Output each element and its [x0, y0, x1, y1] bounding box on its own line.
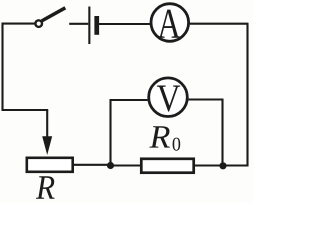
- wire voltmeter branch left horizontal: [110, 99, 148, 101]
- label R0 : R: [149, 126, 169, 147]
- ammeter A circle: [151, 4, 189, 42]
- rheostat slider arrowhead: [42, 136, 52, 155]
- wire battery to ammeter: [99, 23, 151, 25]
- wire ammeter to top-right corner: [189, 23, 248, 25]
- rheostat R body: [27, 158, 73, 172]
- label R: [36, 176, 55, 198]
- wire voltmeter branch left vertical: [109, 99, 111, 166]
- wire rheostat slider vertical: [46, 110, 48, 139]
- resistor R0 body: [141, 159, 193, 173]
- wire switch to battery: [69, 23, 88, 25]
- wire left vertical: [1, 23, 3, 111]
- junction right: [219, 162, 226, 169]
- wire mid-left horizontal: [3, 109, 49, 111]
- ammeter A label: [158, 10, 181, 38]
- wire voltmeter branch right vertical: [221, 100, 223, 166]
- battery short plate (-): [94, 16, 99, 35]
- wire bottom-right corner to right junction: [223, 164, 249, 166]
- battery long plate (+): [88, 7, 90, 45]
- voltmeter V label: [157, 86, 180, 112]
- wire right junction to R0: [195, 164, 223, 166]
- voltmeter V circle: [149, 78, 188, 117]
- junction left: [107, 162, 114, 169]
- switch S pivot: [35, 20, 42, 27]
- wire R0 to left junction: [111, 164, 141, 166]
- label R0 : subscript 0: [173, 138, 181, 151]
- wire left junction to rheostat: [74, 164, 111, 166]
- switch S blade: [42, 8, 66, 21]
- wire right vertical: [246, 23, 248, 167]
- wire voltmeter branch right horizontal: [189, 98, 224, 100]
- wire top-left horizontal: [2, 23, 35, 25]
